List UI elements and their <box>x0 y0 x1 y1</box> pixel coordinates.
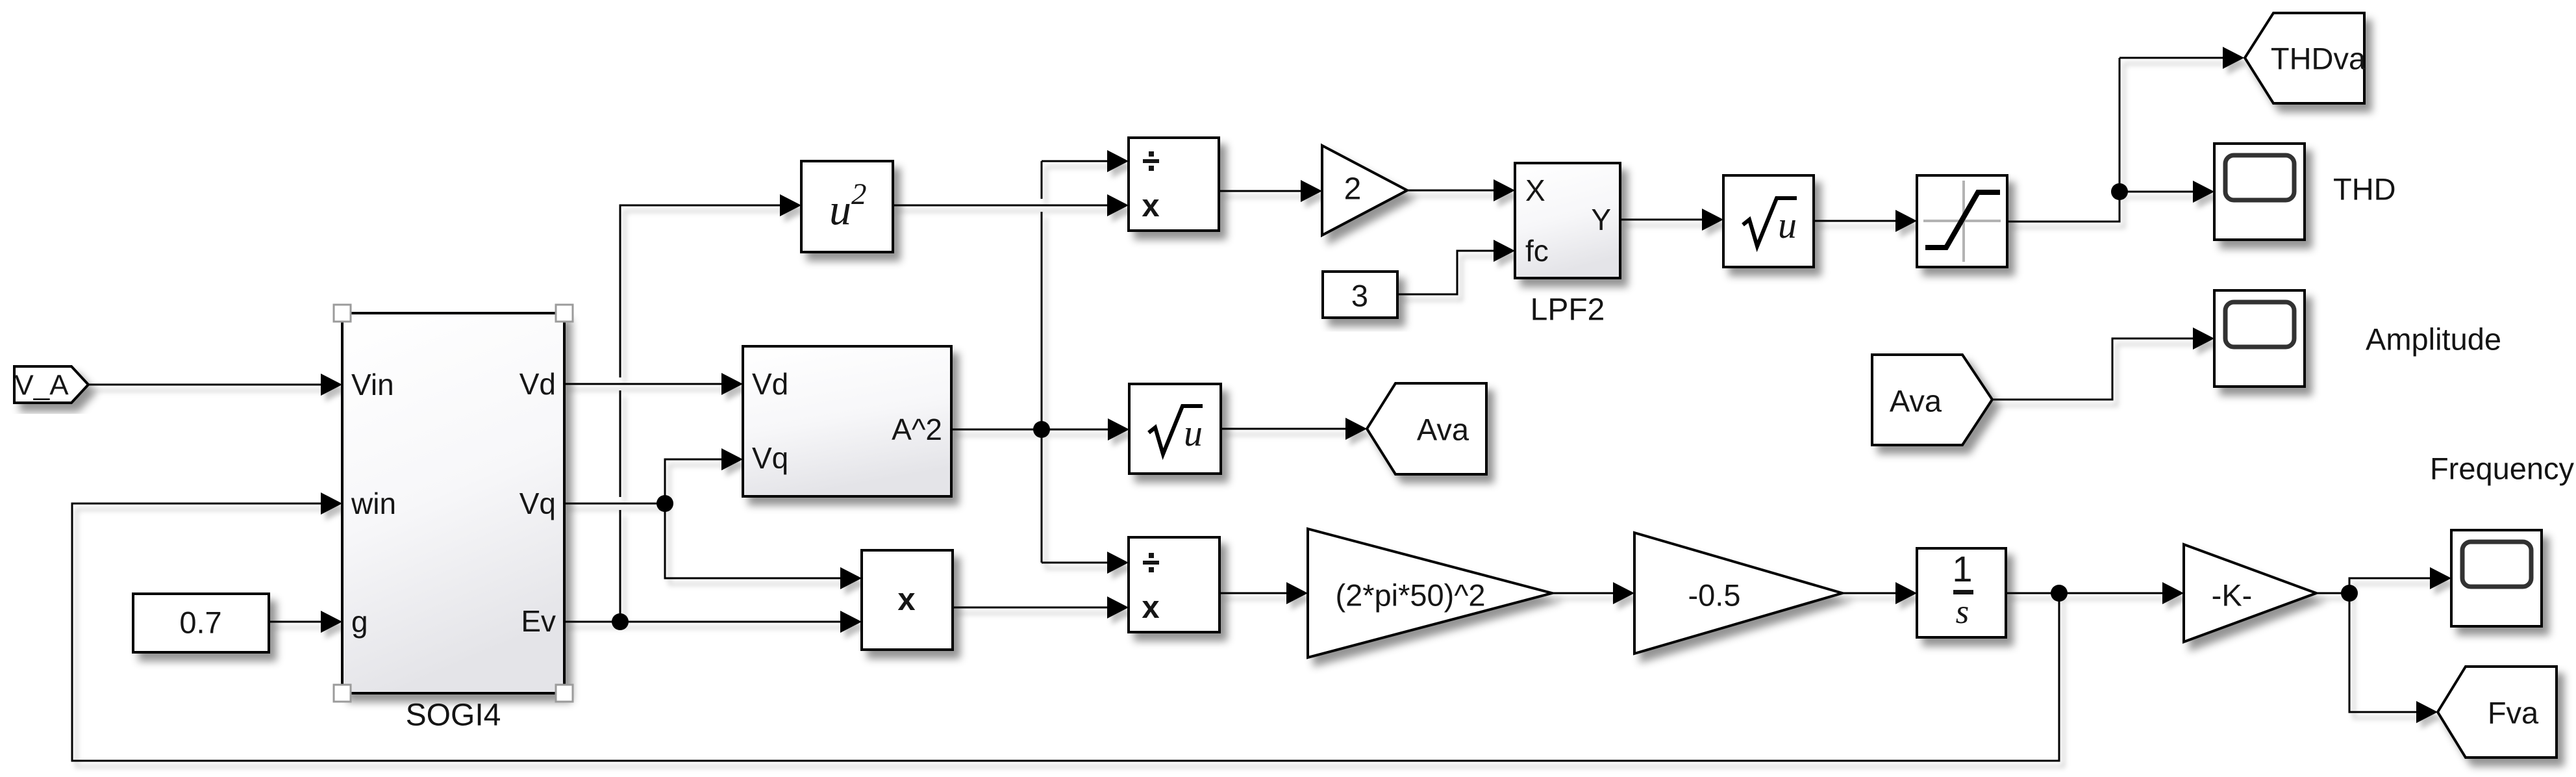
wire junction to sqrt1 input <box>1042 429 1110 431</box>
junction on A^2 output <box>1033 421 1050 438</box>
svg-text:x: x <box>897 582 915 617</box>
math block u^2 <box>801 161 893 252</box>
wire gain (2*pi*50)^2 to gain -0.5 <box>1552 592 1615 594</box>
junction on Vq wire <box>657 495 673 512</box>
arrowhead into u^2 <box>780 194 801 216</box>
wire SOGI4 Ev to product input 2 <box>564 621 842 623</box>
svg-text:Y: Y <box>1591 203 1611 236</box>
arrowhead into SOGI4 g <box>321 611 342 633</box>
svg-text:Vq: Vq <box>519 487 556 520</box>
wire gain 2 to LPF2 X <box>1407 190 1495 192</box>
svg-text:3: 3 <box>1351 279 1368 313</box>
arrowhead into divide1 x <box>1107 194 1129 216</box>
arrowhead into integrator <box>1895 582 1917 604</box>
constant 3 <box>1323 272 1397 318</box>
svg-text:Vin: Vin <box>351 368 394 401</box>
svg-text:s: s <box>1956 593 1970 631</box>
svg-text:Amplitude: Amplitude <box>2366 322 2501 357</box>
wire 0.7 to SOGI4 g <box>269 621 323 623</box>
arrowhead into saturation <box>1895 210 1917 232</box>
arrowhead into SOGI4 Vin <box>321 374 342 396</box>
arrowhead into LPF2 X <box>1494 179 1515 201</box>
svg-text:x: x <box>1142 590 1159 625</box>
From tag V_A <box>14 366 88 403</box>
wire A^2 output to junction <box>951 429 1042 431</box>
wire From Ava to Amplitude scope <box>1992 338 2195 400</box>
svg-text:Vd: Vd <box>752 367 788 401</box>
wire integrator to gain -K- <box>2006 592 2164 594</box>
wire Ev branch up to u^2 input (gaps at Vq and Vd crossings) <box>620 205 782 622</box>
wire constant 3 to LPF2 fc <box>1397 251 1495 294</box>
arrowhead into product input 2 <box>840 611 862 633</box>
svg-text:x: x <box>1142 188 1159 223</box>
gain (2*pi*50)^2 <box>1308 529 1552 657</box>
arrowhead into Amplitude scope <box>2193 327 2214 350</box>
wire SOGI4 Vq trunk <box>564 503 665 505</box>
arrowhead into Goto Fva <box>2416 701 2438 723</box>
gain -0.5 <box>1634 533 1842 654</box>
wire divide1 output to gain 2 <box>1219 190 1303 192</box>
arrowhead into divide2 x <box>1107 596 1129 618</box>
divide1 <box>1129 138 1219 231</box>
gain -K- <box>2184 544 2316 642</box>
junction after gain -K- <box>2341 585 2358 602</box>
svg-text:2: 2 <box>851 177 867 211</box>
svg-text:SOGI4: SOGI4 <box>406 698 501 733</box>
subsystem A^2 <box>743 346 951 496</box>
wire riser to THD scope <box>2120 191 2195 193</box>
constant 0.7 <box>133 594 269 652</box>
wire SOGI4 Vd to A^2 subsystem Vd <box>564 383 723 385</box>
svg-text:Ev: Ev <box>521 604 556 638</box>
svg-text:win: win <box>351 487 396 520</box>
wire product output to divide2 x input <box>953 607 1109 609</box>
subsystem LPF2 <box>1515 163 1620 278</box>
integrator 1/s <box>1917 548 2006 637</box>
svg-text:Vd: Vd <box>519 367 556 401</box>
arrowhead into gain -K- <box>2162 582 2184 604</box>
arrowhead into divide1 dividend <box>1107 150 1129 172</box>
wire trunk vertical A^2 junction (gap at u^2 wire crossing) <box>1041 161 1043 563</box>
arrowhead into THD scope <box>2193 181 2214 203</box>
wire sqrt1 to Goto Ava <box>1221 428 1347 430</box>
product x <box>862 550 953 650</box>
wire Vq branch up to A^2 subsystem Vq <box>665 459 723 503</box>
wire u^2 output to divide1 x input <box>893 205 1109 207</box>
arrowhead into A^2 Vd <box>721 373 743 395</box>
svg-text:LPF2: LPF2 <box>1531 293 1605 327</box>
svg-text:-0.5: -0.5 <box>1688 578 1741 613</box>
From Ava <box>1872 355 1992 445</box>
gain 2 <box>1322 146 1407 235</box>
svg-text:u: u <box>1184 412 1203 454</box>
svg-text:Ava: Ava <box>1417 413 1469 447</box>
wire gain -0.5 to integrator 1/s <box>1842 592 1897 594</box>
sqrt2 <box>1723 175 1814 267</box>
ARROWHEADS <box>321 47 2451 723</box>
divide2 <box>1129 537 1219 632</box>
arrowhead into product input 1 <box>840 567 862 589</box>
svg-text:2: 2 <box>1344 172 1362 207</box>
svg-text:(2*pi*50)^2: (2*pi*50)^2 <box>1335 578 1485 613</box>
svg-text:V_A: V_A <box>14 370 69 401</box>
sqrt1 <box>1129 384 1221 474</box>
svg-text:0.7: 0.7 <box>179 605 221 640</box>
wire divide2 output to gain (2*pi*50)^2 <box>1219 592 1288 594</box>
svg-text:Vq: Vq <box>752 441 788 475</box>
svg-text:u: u <box>1778 204 1797 246</box>
arrowhead into gain (2*pi*50)^2 <box>1286 582 1308 604</box>
svg-text:X: X <box>1525 173 1545 207</box>
arrowhead into Frequency scope <box>2430 567 2451 589</box>
subsystem SOGI4 <box>342 313 564 693</box>
arrowhead into divide2 dividend <box>1107 552 1129 574</box>
svg-text:1: 1 <box>1952 548 1972 589</box>
arrowhead into Goto Ava <box>1345 418 1367 440</box>
svg-text:THD: THD <box>2333 172 2396 207</box>
wire trunk bottom to divide2 dividend input <box>1042 562 1109 564</box>
junction on Ev wire <box>612 613 629 630</box>
wire LPF2 Y to sqrt2 <box>1620 219 1704 221</box>
Goto Ava <box>1367 383 1486 474</box>
arrowhead into sqrt1 <box>1108 418 1129 440</box>
arrowhead into Goto THDva <box>2223 47 2244 69</box>
svg-text:-K-: -K- <box>2212 578 2253 613</box>
arrowhead into SOGI4 win <box>321 492 342 515</box>
svg-text:A^2: A^2 <box>892 413 942 446</box>
svg-text:Fva: Fva <box>2488 696 2539 730</box>
wire V_A to SOGI4 Vin <box>88 384 323 386</box>
svg-text:fc: fc <box>1525 234 1549 268</box>
arrowhead into gain -0.5 <box>1613 582 1634 604</box>
svg-text:g: g <box>351 605 368 639</box>
wire gain -K- to junction <box>2316 592 2349 594</box>
wire feedback from integrator junction to SOGI4 win <box>72 503 2059 761</box>
wire Vq branch down to product input 1 <box>665 503 842 578</box>
wire junction to Goto Fva <box>2349 593 2418 712</box>
wire sqrt2 to saturation <box>1814 220 1897 222</box>
scope THD <box>2214 144 2305 240</box>
junction on saturation riser <box>2111 183 2128 200</box>
junction after integrator <box>2051 585 2068 602</box>
Goto Fva <box>2438 667 2557 758</box>
wire junction to Frequency scope <box>2349 578 2432 593</box>
wire trunk top to divide1 dividend input <box>1042 160 1109 162</box>
arrowhead into gain 2 <box>1301 180 1322 202</box>
scope Frequency <box>2451 530 2542 626</box>
Goto THDva <box>2245 13 2366 103</box>
svg-text:u: u <box>829 185 851 234</box>
wire riser to Goto THDva <box>2120 57 2225 59</box>
svg-text:THDva: THDva <box>2271 42 2366 76</box>
svg-text:Ava: Ava <box>1890 384 1942 418</box>
svg-text:Frequency: Frequency <box>2430 452 2575 486</box>
saturation <box>1917 175 2007 267</box>
SOGI4 selection handles <box>334 305 573 702</box>
arrowhead into sqrt2 <box>1702 209 1723 231</box>
wire saturation output riser <box>2007 58 2120 222</box>
scope Amplitude <box>2214 290 2305 387</box>
arrowhead into A^2 Vq <box>721 448 743 470</box>
arrowhead into LPF2 fc <box>1494 240 1515 262</box>
